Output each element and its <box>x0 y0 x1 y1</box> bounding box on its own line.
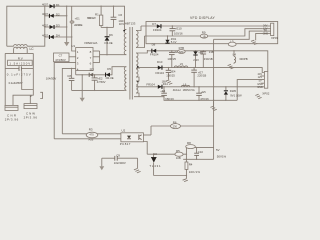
resistor R9 <box>200 31 207 39</box>
diode D10 <box>156 60 165 75</box>
svg-text:R4: R4 <box>189 163 193 167</box>
svg-text:D1: D1 <box>56 3 60 7</box>
wire pin4 stub <box>261 82 265 84</box>
svg-text:D4: D4 <box>56 34 60 38</box>
connector XP02 <box>257 72 270 96</box>
svg-text:+E6: +E6 <box>198 50 203 54</box>
wire rail G <box>141 86 264 87</box>
svg-text:TL431: TL431 <box>149 164 161 168</box>
svg-text:L5: L5 <box>180 62 184 66</box>
ground U1 <box>80 75 85 102</box>
svg-text:470: 470 <box>89 132 94 136</box>
ground hatch top <box>251 40 257 44</box>
inductor L6 <box>173 82 195 92</box>
svg-text:C7: C7 <box>59 53 63 57</box>
svg-text:C10: C10 <box>198 150 204 154</box>
inductor L4 <box>233 50 248 64</box>
capacitor E2 <box>92 75 106 91</box>
wire rail B <box>145 29 263 37</box>
svg-text:D5: D5 <box>107 67 111 71</box>
svg-text:100/16: 100/16 <box>174 31 183 35</box>
transformer T1 <box>123 21 147 99</box>
svg-text:C8: C8 <box>67 74 71 78</box>
diode D7 <box>152 22 162 32</box>
svg-text:D11: D11 <box>163 82 168 86</box>
svg-text:U1: U1 <box>71 44 75 48</box>
wire pin2 stub <box>261 75 265 77</box>
svg-text:+E10: +E10 <box>175 26 182 30</box>
wire aux return <box>72 90 125 91</box>
wire bus 5V <box>213 39 215 159</box>
svg-text:FR104: FR104 <box>150 53 159 57</box>
svg-text:+E4: +E4 <box>160 89 165 93</box>
node 5V labels <box>216 148 227 158</box>
wire rail E <box>147 50 267 71</box>
svg-text:102/400V: 102/400V <box>114 161 126 165</box>
op-amp U1 VIPER12A <box>71 41 97 72</box>
inductor L5 <box>174 62 188 68</box>
diode D8 <box>150 43 159 57</box>
wire rail F <box>139 67 265 73</box>
wire pin5 zener rail <box>225 87 227 101</box>
value label 104 <box>46 76 57 80</box>
capacitor C9 Y-cap <box>102 154 138 165</box>
resistor R3 <box>62 127 121 141</box>
diode D3 <box>42 23 67 29</box>
svg-text:GND: GND <box>257 86 263 89</box>
ground hatch XP02 <box>255 94 261 99</box>
svg-text:5V: 5V <box>216 148 220 152</box>
svg-text:LC: LC <box>30 47 35 51</box>
resistor R5 <box>175 149 183 160</box>
wire gnd stub to pin4 <box>256 33 263 40</box>
resistor R6 <box>171 120 181 128</box>
svg-text:Z2: Z2 <box>91 68 95 72</box>
svg-text:1B: 1B <box>202 34 205 38</box>
svg-text:FR104: FR104 <box>146 83 155 87</box>
svg-text:474/50V: 474/50V <box>55 58 66 62</box>
svg-text:D6: D6 <box>109 33 113 37</box>
svg-text:D3: D3 <box>56 24 60 28</box>
wire opto out <box>143 135 151 154</box>
inductor L3 <box>228 39 236 46</box>
svg-text:XP03: XP03 <box>271 36 278 40</box>
svg-text:R1: R1 <box>95 12 99 16</box>
wire U1 pin3 feedback <box>54 63 75 139</box>
svg-text:DW0: DW0 <box>230 89 237 93</box>
svg-text:0.1uF/250V: 0.1uF/250V <box>9 81 23 85</box>
svg-text:U2: U2 <box>122 129 126 133</box>
capacitor E3 <box>167 50 179 68</box>
node 18V label <box>162 79 167 83</box>
svg-text:FR-0E: FR-0E <box>106 76 114 80</box>
wire U1 pin4 <box>62 68 75 134</box>
capacitor E4 <box>160 87 174 101</box>
wire rail 16V <box>141 25 262 26</box>
capacitor E1 bulk <box>70 6 83 51</box>
svg-text:10K/1%: 10K/1% <box>189 170 201 174</box>
svg-text:VIPER12A: VIPER12A <box>84 41 98 45</box>
zener ZD1 <box>165 36 176 44</box>
wire filter upper <box>5 53 33 105</box>
svg-text:1KV: 1KV <box>119 22 124 26</box>
zener ZD2 <box>193 51 199 68</box>
svg-text:10B: 10B <box>176 156 181 160</box>
svg-text:D2: D2 <box>56 12 60 16</box>
diode D6 clamp <box>105 27 114 54</box>
svg-text:330/1B: 330/1B <box>204 57 213 61</box>
svg-text:4007: 4007 <box>42 12 48 16</box>
zener D13 <box>224 89 242 98</box>
svg-text:+E5: +E5 <box>201 90 206 94</box>
svg-text:22/400E: 22/400E <box>74 23 83 27</box>
svg-text:100/25: 100/25 <box>167 57 176 61</box>
svg-text:1.5A/250V: 1.5A/250V <box>9 62 30 66</box>
svg-text:D10: D10 <box>157 60 163 64</box>
wire D2-D3 junction to ground <box>66 6 67 43</box>
svg-text:130/25: 130/25 <box>166 74 175 78</box>
connector CN1 <box>5 105 19 121</box>
fuse RV box <box>8 56 33 65</box>
connector CN2 <box>24 104 38 120</box>
svg-text:1B0V0.5A: 1B0V0.5A <box>183 88 195 92</box>
wire clamp node <box>101 27 113 28</box>
wire anode return <box>154 175 187 177</box>
diode D2 <box>42 12 67 18</box>
wire rail H secondary return <box>134 97 237 101</box>
wire pin3 feed <box>237 80 264 101</box>
svg-text:HBT133: HBT133 <box>125 21 136 25</box>
capacitor E10 <box>170 26 183 36</box>
svg-text:0.1uF/275V: 0.1uF/275V <box>7 72 31 76</box>
svg-text:R3: R3 <box>89 127 93 131</box>
svg-text:13B: 13B <box>209 50 214 54</box>
svg-text:2: 2 <box>30 94 32 98</box>
svg-text:2P/3.96: 2P/3.96 <box>24 116 38 120</box>
svg-text:R7B: R7B <box>179 46 185 50</box>
svg-text:+E1: +E1 <box>75 16 80 20</box>
resistor R4 <box>185 148 200 177</box>
svg-text:C9: C9 <box>116 154 120 158</box>
svg-text:A06: A06 <box>88 138 93 142</box>
svg-text:D7: D7 <box>152 22 156 26</box>
node 12V label <box>209 50 214 54</box>
wire opto lower <box>54 138 121 140</box>
svg-text:4007: 4007 <box>42 23 48 27</box>
svg-text:C6: C6 <box>118 13 122 17</box>
diode D4 <box>42 33 72 39</box>
capacitor C10 <box>194 147 203 159</box>
svg-text:2.2V: 2.2V <box>193 58 199 62</box>
resistor R7 <box>178 46 186 54</box>
ground hatch R4 <box>183 176 188 182</box>
wire rail C <box>214 31 263 39</box>
capacitor C7 box <box>54 53 76 62</box>
shunt U3 TL431 <box>149 152 161 176</box>
inductor LC common-mode choke <box>7 45 34 54</box>
svg-text:2P/3.96: 2P/3.96 <box>5 118 19 122</box>
ground hatch C9 right <box>134 158 141 173</box>
svg-text:410uH: 410uH <box>173 88 181 92</box>
capacitor E6 <box>198 50 213 67</box>
wire to CN connectors <box>13 71 43 106</box>
capacitor CX 0.1uF <box>5 66 33 85</box>
resistor R8 <box>186 141 214 149</box>
svg-text:47/50V: 47/50V <box>97 80 106 84</box>
svg-text:VFD DISPLAY: VFD DISPLAY <box>190 16 216 20</box>
svg-text:PC817: PC817 <box>120 142 131 146</box>
svg-text:330PB: 330PB <box>239 57 248 61</box>
zener Z2 <box>89 68 95 77</box>
capacitor C8 <box>67 68 74 90</box>
svg-text:GND: GND <box>263 32 269 35</box>
wire opto top rail <box>151 126 214 135</box>
ground primary arrow <box>64 42 69 46</box>
ground hatch bus <box>210 100 216 110</box>
svg-text:4007: 4007 <box>42 3 48 7</box>
node VFD DISPLAY box <box>146 16 278 44</box>
svg-text:4007: 4007 <box>42 33 48 37</box>
wire rail K <box>183 159 213 160</box>
svg-text:230: 230 <box>173 124 178 128</box>
capacitor E5 <box>196 87 209 101</box>
wire U1 drain pins <box>93 51 100 63</box>
ground hatch mid <box>228 64 234 69</box>
svg-text:5.1V: 5.1V <box>171 40 177 44</box>
wire HV top rail <box>7 6 125 46</box>
ground arrow C9 left <box>99 158 104 170</box>
svg-text:D8: D8 <box>152 43 156 47</box>
svg-text:XP02: XP02 <box>262 92 269 96</box>
diode D1 <box>42 3 60 9</box>
svg-text:220/1B: 220/1B <box>197 74 206 78</box>
wire TL431 rail <box>147 154 186 155</box>
capacitor E7a <box>166 68 176 80</box>
capacitor E7b <box>191 68 206 87</box>
svg-text:9V1 10W: 9V1 10W <box>230 94 242 98</box>
ground hatch E7a <box>166 80 172 85</box>
diode D11 <box>146 82 168 89</box>
svg-text:680K1W: 680K1W <box>87 16 96 20</box>
svg-text:104/50V: 104/50V <box>46 76 57 80</box>
capacitor C6 snubber <box>111 6 125 28</box>
wire D5 to aux <box>110 67 125 75</box>
diode D5 <box>105 67 114 80</box>
svg-text:FR-0E: FR-0E <box>105 41 113 45</box>
svg-text:FR104: FR104 <box>156 71 165 75</box>
wire U1 gnd row <box>76 71 105 76</box>
connector XP03 <box>262 23 278 40</box>
resistor R1 <box>87 6 103 28</box>
svg-text:FR104: FR104 <box>153 28 162 32</box>
wire drain <box>100 54 126 55</box>
opto U2 PC817 <box>120 129 144 146</box>
svg-text:50V1%: 50V1% <box>217 154 227 158</box>
svg-text:680: 680 <box>179 50 184 54</box>
wire bridge left bus <box>29 6 46 46</box>
